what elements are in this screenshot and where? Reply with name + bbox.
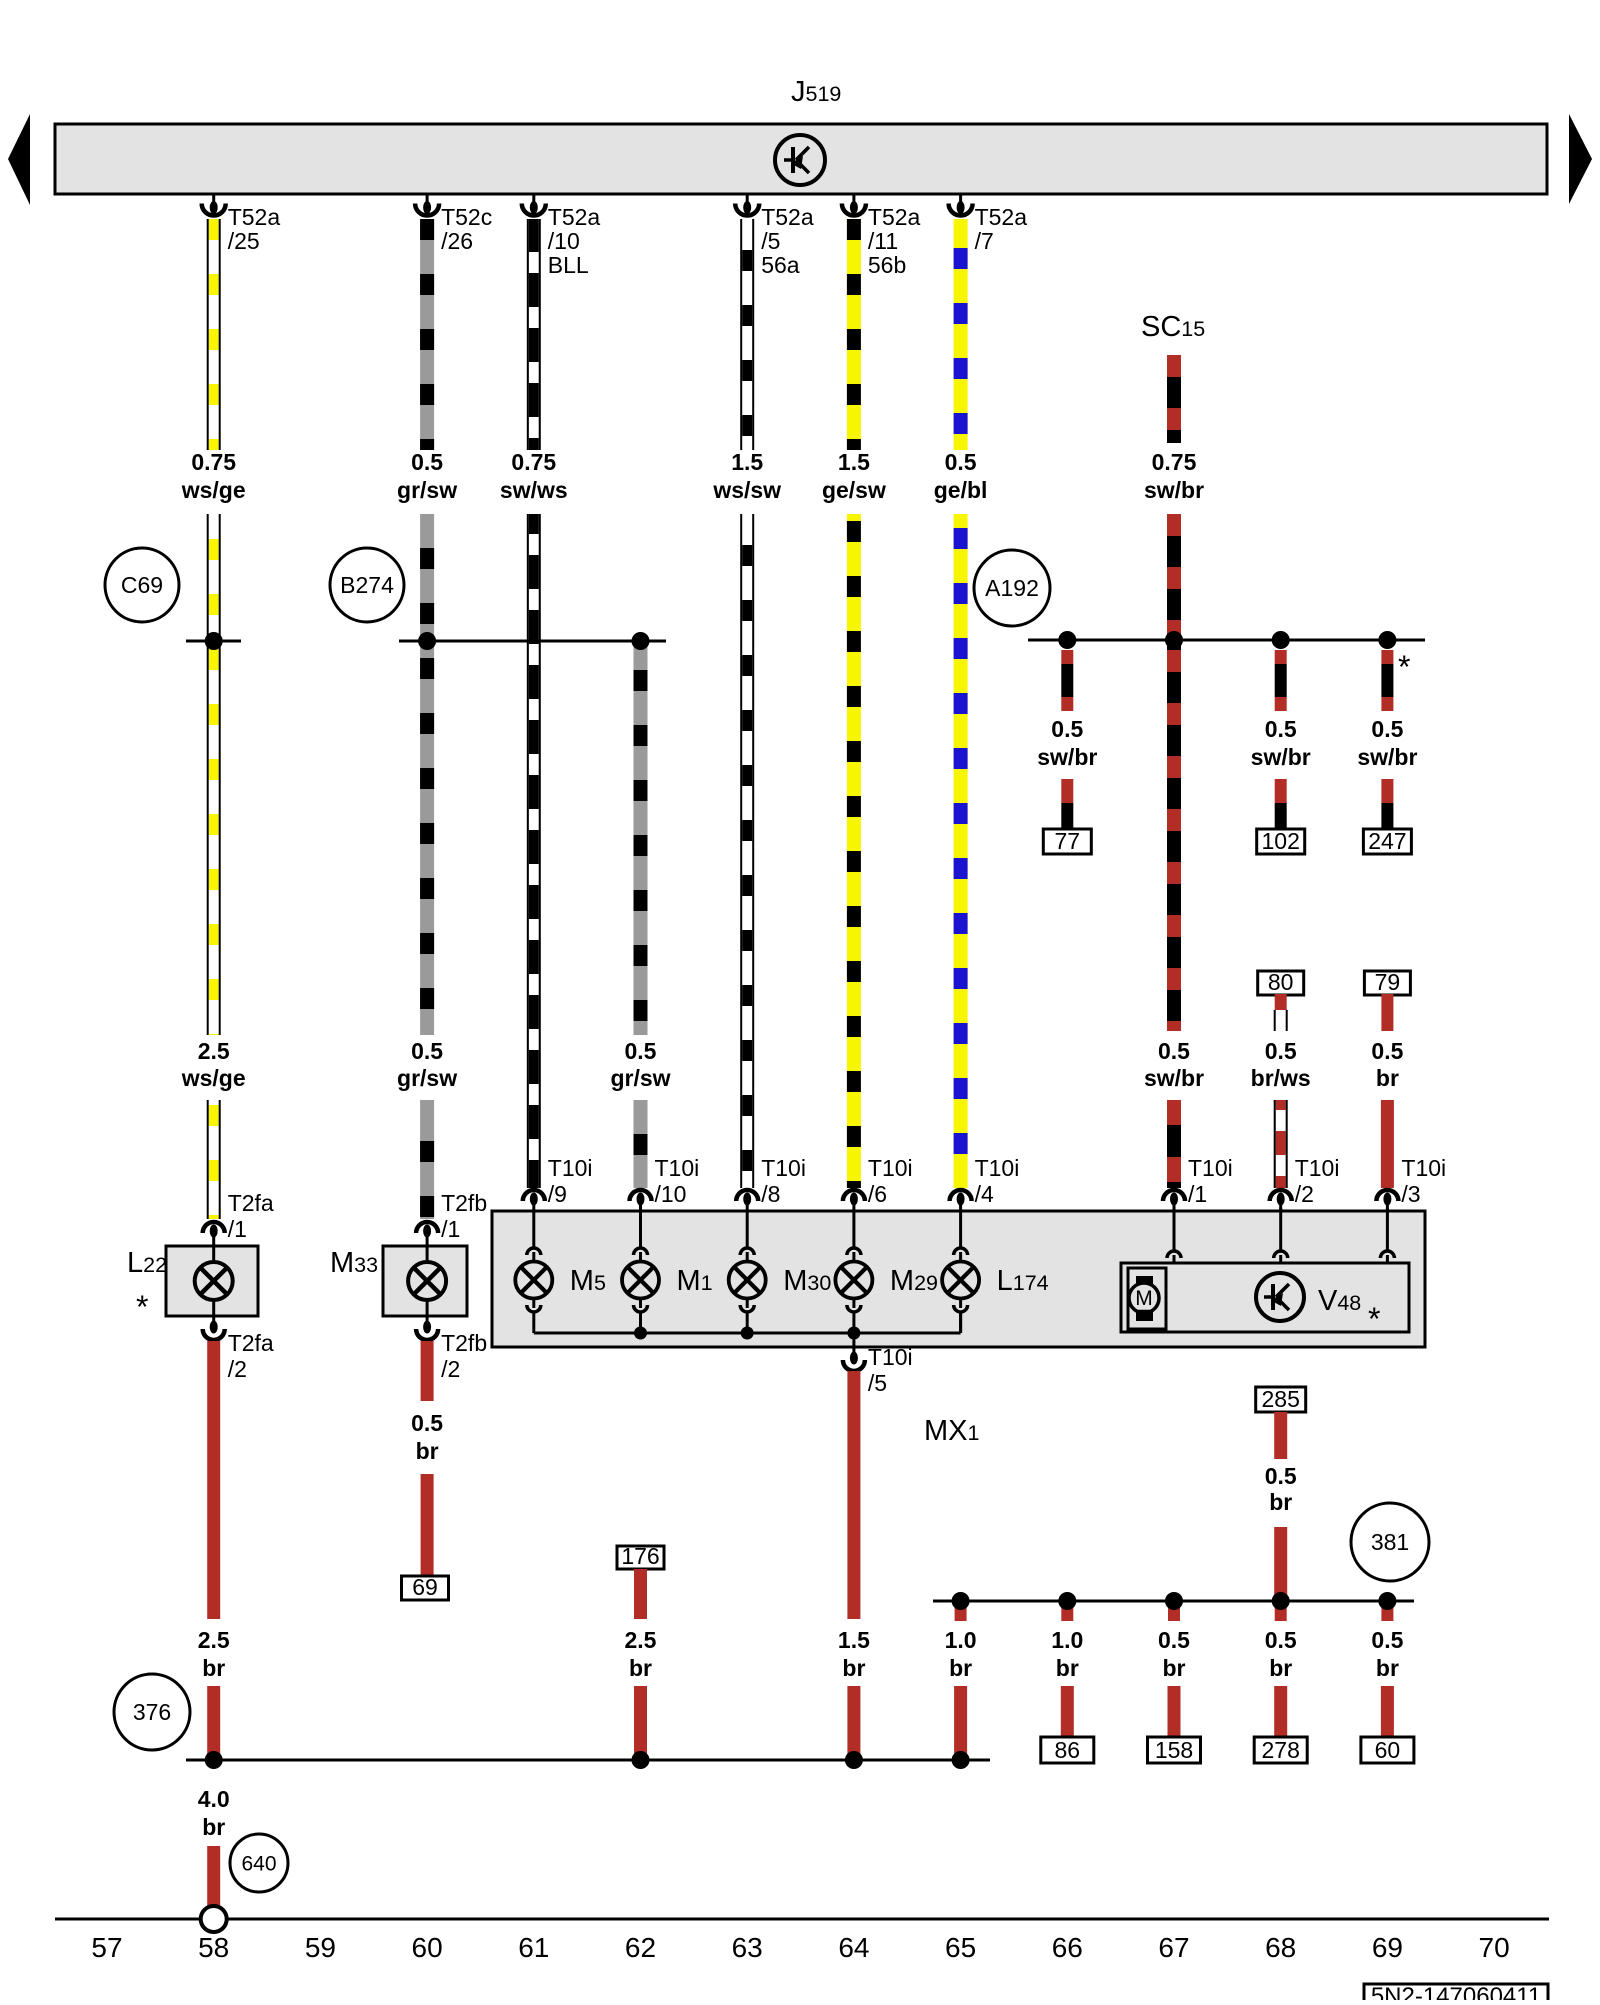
label L22 bbox=[127, 1247, 167, 1279]
svg-text:1.0: 1.0 bbox=[1051, 1627, 1083, 1653]
junction line A192 splice bbox=[1028, 639, 1425, 642]
svg-text:sw/br: sw/br bbox=[1144, 1065, 1204, 1091]
internal ground bus inside lamp unit bbox=[534, 1311, 961, 1333]
svg-text:69: 69 bbox=[412, 1574, 438, 1600]
wire br stub below MX1 splice bbox=[1061, 1601, 1073, 1621]
left continuation arrow bbox=[8, 114, 30, 205]
scale number 66 bbox=[1052, 1932, 1083, 1963]
label M5 bbox=[570, 1265, 606, 1297]
scale number 60 bbox=[412, 1932, 443, 1963]
label M29 bbox=[890, 1265, 938, 1297]
ground point 60 bbox=[1361, 1737, 1414, 1763]
connector T2fb/1 bbox=[416, 1190, 487, 1246]
node 640 bbox=[230, 1834, 288, 1892]
motor assembly box V48 bbox=[1121, 1263, 1409, 1332]
svg-text:B274: B274 bbox=[340, 572, 394, 598]
wire br 2.5 from T2fa/2 bbox=[207, 1341, 220, 1619]
svg-text:1.5: 1.5 bbox=[838, 449, 870, 475]
junction dot C69 splice bbox=[205, 632, 223, 650]
svg-text:4.0: 4.0 bbox=[198, 1786, 230, 1812]
svg-text:T10i: T10i bbox=[655, 1155, 700, 1181]
value label 0.5 br bbox=[1158, 1627, 1190, 1681]
wire ge/bl (segment B, continuous) bbox=[954, 514, 968, 1188]
asterisk note at A192 splice bbox=[1398, 649, 1410, 685]
svg-text:79: 79 bbox=[1375, 969, 1401, 995]
value label 0.75 sw/br bbox=[1144, 449, 1204, 503]
svg-text:sw/br: sw/br bbox=[1144, 477, 1204, 503]
label M1 bbox=[677, 1265, 713, 1297]
ground point 247 bbox=[1363, 828, 1411, 854]
wire br 2.5 to ground splice (col 58) bbox=[207, 1686, 220, 1760]
wire br (segment C to T10i/3) bbox=[1381, 1100, 1394, 1188]
svg-text:70: 70 bbox=[1479, 1932, 1510, 1963]
svg-text:*: * bbox=[1398, 649, 1410, 685]
wire br 0.5 to ground 158 bbox=[1168, 1686, 1181, 1737]
wire br 1.5 from T10i/5 bbox=[847, 1371, 860, 1619]
svg-text:ws/ge: ws/ge bbox=[181, 1065, 246, 1091]
svg-text:65: 65 bbox=[945, 1932, 976, 1963]
wire br stub below MX1 splice bbox=[1275, 1601, 1287, 1621]
junction dots ground splice 376 bbox=[205, 1751, 970, 1769]
svg-text:0.5: 0.5 bbox=[625, 1038, 657, 1064]
diagram part number 5N2-147060411 bbox=[1364, 1983, 1548, 2005]
svg-text:/10: /10 bbox=[655, 1181, 687, 1207]
lamp M30 bbox=[729, 1211, 766, 1333]
svg-text:/1: /1 bbox=[441, 1216, 460, 1242]
wire stub to ground 247 bbox=[1381, 779, 1393, 829]
connector T52a/5 on J519 bbox=[735, 194, 814, 278]
node B274 bbox=[330, 548, 404, 622]
node C69 bbox=[105, 548, 179, 622]
svg-text:0.75: 0.75 bbox=[191, 449, 236, 475]
scale number 62 bbox=[625, 1932, 656, 1963]
svg-text:T2fb: T2fb bbox=[441, 1330, 487, 1356]
wire br 1.0 to ground 86 bbox=[1061, 1686, 1074, 1737]
K symbol in J519 bbox=[775, 135, 825, 185]
svg-text:*: * bbox=[136, 1289, 148, 1325]
svg-text:T2fa: T2fa bbox=[228, 1190, 274, 1216]
splice line MX1 bbox=[933, 1600, 1414, 1603]
value label 0.5 br bbox=[1265, 1463, 1297, 1515]
svg-text:T52a: T52a bbox=[975, 204, 1028, 230]
connector T10i/9 bbox=[523, 1155, 593, 1211]
node 381 bbox=[1351, 1503, 1429, 1581]
wire ge/sw (segment B, continuous) bbox=[847, 514, 861, 1188]
node 376 bbox=[114, 1674, 190, 1750]
scale number 67 bbox=[1158, 1932, 1189, 1963]
svg-text:M: M bbox=[1135, 1287, 1153, 1310]
svg-text:sw/br: sw/br bbox=[1357, 744, 1417, 770]
svg-text:BLL: BLL bbox=[548, 252, 589, 278]
svg-text:T2fb: T2fb bbox=[441, 1190, 487, 1216]
svg-text:/9: /9 bbox=[548, 1181, 567, 1207]
value label 0.5 sw/br bbox=[1251, 716, 1311, 770]
value label 0.75 ws/ge bbox=[181, 449, 246, 503]
svg-text:gr/sw: gr/sw bbox=[397, 477, 457, 503]
lamp M29 bbox=[835, 1211, 872, 1333]
svg-text:58: 58 bbox=[198, 1932, 229, 1963]
label L174 bbox=[997, 1265, 1049, 1297]
wire br stub below 79 bbox=[1381, 994, 1393, 1031]
svg-text:sw/br: sw/br bbox=[1251, 744, 1311, 770]
scale number 65 bbox=[945, 1932, 976, 1963]
wire sw/br 0.5 stub below A192 splice (to 102) bbox=[1275, 650, 1287, 711]
wire sw/br 0.5 below A192 splice bbox=[1167, 640, 1181, 1031]
wire br stub below MX1 splice bbox=[1381, 1601, 1393, 1621]
wire br 285 to MX1 splice bbox=[1274, 1527, 1287, 1601]
junction line B274 splice bbox=[399, 640, 666, 643]
scale number 63 bbox=[732, 1932, 763, 1963]
wire ws/sw 1.5 from T52a/5 (segment A) bbox=[741, 219, 753, 450]
svg-text:60: 60 bbox=[412, 1932, 443, 1963]
value label 0.5 br bbox=[1371, 1627, 1403, 1681]
svg-text:/2: /2 bbox=[441, 1356, 460, 1382]
K symbol V48 bbox=[1256, 1273, 1304, 1321]
svg-text:T10i: T10i bbox=[868, 1155, 913, 1181]
svg-text:/26: /26 bbox=[441, 228, 473, 254]
svg-text:80: 80 bbox=[1268, 969, 1294, 995]
junction dots B274 splice bbox=[418, 632, 649, 650]
svg-text:0.5: 0.5 bbox=[411, 1410, 443, 1436]
ground point 77 bbox=[1043, 828, 1091, 854]
svg-text:640: 640 bbox=[241, 1852, 276, 1875]
scale number 70 bbox=[1479, 1932, 1510, 1963]
wire br 0.5 below 285 bbox=[1274, 1412, 1287, 1459]
scale number 59 bbox=[305, 1932, 336, 1963]
svg-text:br: br bbox=[1376, 1655, 1399, 1681]
connector T10i/3 bbox=[1376, 1155, 1446, 1211]
label V48 bbox=[1318, 1285, 1361, 1317]
value label 0.5 sw/br bbox=[1037, 716, 1097, 770]
wire br stub below MX1 splice bbox=[955, 1601, 967, 1621]
lamp box M33 bbox=[383, 1246, 467, 1316]
svg-text:/8: /8 bbox=[761, 1181, 780, 1207]
scale number 69 bbox=[1372, 1932, 1403, 1963]
svg-text:ws/sw: ws/sw bbox=[712, 477, 781, 503]
svg-text:60: 60 bbox=[1375, 1737, 1401, 1763]
value label 1.0 br bbox=[1051, 1627, 1083, 1681]
svg-text:67: 67 bbox=[1158, 1932, 1189, 1963]
svg-text:T10i: T10i bbox=[1401, 1155, 1446, 1181]
lamp symbol M33 bbox=[408, 1246, 446, 1316]
ground terminal symbol at track 58 bbox=[201, 1906, 227, 1932]
svg-text:br: br bbox=[1376, 1065, 1399, 1091]
wire br to ground 69 bbox=[421, 1474, 434, 1576]
value label 0.5 br/ws bbox=[1251, 1038, 1311, 1091]
svg-text:1.5: 1.5 bbox=[838, 1627, 870, 1653]
junction dots MX1 splice bbox=[952, 1592, 1397, 1610]
wire sw/ws (segment B, continuous) bbox=[528, 514, 540, 1188]
svg-text:0.5: 0.5 bbox=[945, 449, 977, 475]
svg-text:0.5: 0.5 bbox=[1051, 716, 1083, 742]
bottom frame line bbox=[55, 1918, 1549, 1921]
svg-text:/6: /6 bbox=[868, 1181, 887, 1207]
connector T10i/4 bbox=[950, 1155, 1020, 1211]
right continuation arrow bbox=[1569, 114, 1592, 204]
asterisk note V48 bbox=[1368, 1301, 1380, 1337]
svg-text:62: 62 bbox=[625, 1932, 656, 1963]
svg-text:ge/sw: ge/sw bbox=[822, 477, 886, 503]
label M30 bbox=[783, 1265, 831, 1297]
svg-text:0.5: 0.5 bbox=[1371, 716, 1403, 742]
svg-text:0.5: 0.5 bbox=[411, 1038, 443, 1064]
value label 1.0 br bbox=[945, 1627, 977, 1681]
value label 0.5 gr/sw bbox=[610, 1038, 670, 1091]
value label 0.5 br bbox=[1371, 1038, 1403, 1091]
svg-text:T10i: T10i bbox=[761, 1155, 806, 1181]
svg-text:/25: /25 bbox=[228, 228, 260, 254]
svg-text:ge/bl: ge/bl bbox=[934, 477, 988, 503]
value label 0.5 ge/bl bbox=[934, 449, 988, 503]
connector T52a/25 on J519 bbox=[202, 194, 281, 254]
ground point 69 bbox=[402, 1574, 449, 1600]
label SC15 bbox=[1141, 311, 1205, 343]
svg-text:br: br bbox=[202, 1814, 225, 1840]
wire br stub below MX1 splice bbox=[1168, 1601, 1180, 1621]
svg-text:T10i: T10i bbox=[548, 1155, 593, 1181]
wire br 1.5 to ground splice (col 64) bbox=[847, 1686, 860, 1761]
lamp L174 bbox=[942, 1211, 979, 1333]
svg-text:T52a: T52a bbox=[868, 204, 921, 230]
connector T10i/1 bbox=[1163, 1155, 1233, 1211]
wire gr/sw (segment B) bbox=[420, 514, 434, 1035]
svg-text:ws/ge: ws/ge bbox=[181, 477, 246, 503]
svg-text:64: 64 bbox=[838, 1932, 869, 1963]
junction on ws/ge wire (C69 splice) bbox=[186, 640, 241, 643]
svg-text:br: br bbox=[1269, 1489, 1292, 1515]
svg-text:br: br bbox=[1269, 1655, 1292, 1681]
svg-text:102: 102 bbox=[1262, 828, 1300, 854]
svg-text:br: br bbox=[629, 1655, 652, 1681]
svg-text:*: * bbox=[1368, 1301, 1380, 1337]
svg-text:5N2-147060411: 5N2-147060411 bbox=[1371, 1983, 1541, 2000]
svg-text:376: 376 bbox=[133, 1699, 171, 1725]
label M33 bbox=[330, 1247, 378, 1279]
wire sw/ws 0.75 from T52a/10 (segment A) bbox=[528, 219, 540, 450]
value label 1.5 ge/sw bbox=[822, 449, 886, 503]
value label 0.75 sw/ws bbox=[500, 449, 568, 503]
wire br/ws stub below 80 bbox=[1275, 994, 1287, 1031]
svg-text:0.75: 0.75 bbox=[511, 449, 556, 475]
svg-text:247: 247 bbox=[1368, 828, 1406, 854]
svg-text:br: br bbox=[416, 1438, 439, 1464]
svg-text:A192: A192 bbox=[985, 575, 1039, 601]
svg-text:/4: /4 bbox=[975, 1181, 994, 1207]
svg-text:285: 285 bbox=[1262, 1386, 1300, 1412]
wire stub to ground 102 bbox=[1275, 779, 1287, 829]
wire br 0.5 to ground 60 bbox=[1381, 1686, 1394, 1737]
value label 0.5 br bbox=[411, 1410, 443, 1464]
wire gr/sw (segment C to T10i/10) bbox=[634, 1100, 648, 1188]
svg-text:56a: 56a bbox=[761, 252, 800, 278]
svg-text:63: 63 bbox=[732, 1932, 763, 1963]
connector T10i/10 bbox=[630, 1155, 700, 1211]
svg-text:0.5: 0.5 bbox=[1371, 1038, 1403, 1064]
svg-text:/5: /5 bbox=[868, 1370, 887, 1396]
svg-text:sw/br: sw/br bbox=[1037, 744, 1097, 770]
lamp box L22 bbox=[166, 1246, 258, 1316]
wire gr/sw (segment C to T2fb/1) bbox=[420, 1100, 434, 1219]
wire gr/sw 0.5 from T52c/26 (segment A) bbox=[420, 219, 434, 450]
wire br 4.0 to main ground bbox=[207, 1846, 220, 1917]
value label 1.5 br bbox=[838, 1627, 870, 1681]
node A192 bbox=[974, 550, 1050, 626]
svg-text:T52a: T52a bbox=[548, 204, 601, 230]
wire ge/bl 0.5 from T52a/7 (segment A) bbox=[954, 219, 968, 450]
svg-text:/3: /3 bbox=[1401, 1181, 1420, 1207]
value label 2.5 br bbox=[625, 1627, 657, 1681]
motor symbol M bbox=[1128, 1268, 1166, 1329]
svg-text:0.5: 0.5 bbox=[1158, 1038, 1190, 1064]
svg-text:/2: /2 bbox=[228, 1356, 247, 1382]
connector T2fb/2 bbox=[416, 1316, 487, 1382]
socket on V48 box bbox=[1274, 1208, 1288, 1263]
svg-text:381: 381 bbox=[1371, 1529, 1409, 1555]
svg-text:br: br bbox=[842, 1655, 865, 1681]
svg-text:T52a: T52a bbox=[228, 204, 281, 230]
lamp M1 bbox=[622, 1211, 659, 1333]
value label 0.5 br bbox=[1265, 1627, 1297, 1681]
wire ws/ge 2.5 (segment B) bbox=[208, 514, 220, 1035]
ground point 176 bbox=[617, 1543, 664, 1569]
wire sw/br 0.75 from SC15 (top segment) bbox=[1167, 355, 1181, 443]
wire sw/br (segment C to T10i/1) bbox=[1167, 1100, 1181, 1188]
svg-text:/10: /10 bbox=[548, 228, 580, 254]
svg-text:br: br bbox=[202, 1655, 225, 1681]
wire br 0.5 to ground 278 bbox=[1274, 1686, 1287, 1737]
ground point 158 bbox=[1148, 1737, 1201, 1763]
ground point 278 bbox=[1254, 1737, 1307, 1763]
svg-text:2.5: 2.5 bbox=[198, 1627, 230, 1653]
connector T52c/26 on J519 bbox=[415, 194, 492, 254]
label MX1 bbox=[924, 1415, 979, 1447]
connector T52a/10 on J519 bbox=[522, 194, 601, 278]
svg-text:77: 77 bbox=[1055, 828, 1081, 854]
svg-text:57: 57 bbox=[91, 1932, 122, 1963]
svg-text:176: 176 bbox=[621, 1543, 659, 1569]
svg-text:68: 68 bbox=[1265, 1932, 1296, 1963]
socket on V48 box bbox=[1167, 1208, 1181, 1263]
value label 4.0 br bbox=[198, 1786, 230, 1840]
svg-text:br: br bbox=[1056, 1655, 1079, 1681]
svg-text:C69: C69 bbox=[121, 572, 163, 598]
asterisk note L22 bbox=[136, 1289, 148, 1325]
svg-text:59: 59 bbox=[305, 1932, 336, 1963]
value label 1.5 ws/sw bbox=[712, 449, 781, 503]
scale number 58 bbox=[198, 1932, 229, 1963]
ground splice line 376 bbox=[186, 1759, 990, 1762]
svg-text:69: 69 bbox=[1372, 1932, 1403, 1963]
wire sw/br 0.5 stub below A192 splice (to 247) bbox=[1381, 650, 1393, 711]
connector T10i/2 bbox=[1270, 1155, 1340, 1211]
connector T2fa/1 bbox=[203, 1190, 274, 1246]
wire br 0.5 from T2fb/2 bbox=[421, 1341, 434, 1401]
svg-text:/7: /7 bbox=[975, 228, 994, 254]
connector T10i/8 bbox=[736, 1155, 806, 1211]
connector T2fa/2 bbox=[203, 1316, 274, 1382]
ground point 86 bbox=[1041, 1737, 1094, 1763]
socket on V48 box bbox=[1380, 1208, 1394, 1263]
wire ws/ge 0.75 from T52a/25 (segment A) bbox=[208, 219, 220, 450]
svg-text:T10i: T10i bbox=[868, 1344, 913, 1370]
terminal 80 feed bbox=[1258, 969, 1304, 995]
wire gr/sw 0.5 branch from B274 splice bbox=[634, 641, 648, 1035]
svg-text:158: 158 bbox=[1155, 1737, 1193, 1763]
svg-text:T10i: T10i bbox=[1188, 1155, 1233, 1181]
scale number 61 bbox=[518, 1932, 549, 1963]
svg-text:/5: /5 bbox=[761, 228, 780, 254]
svg-text:T10i: T10i bbox=[1295, 1155, 1340, 1181]
value label 0.5 gr/sw bbox=[397, 449, 457, 503]
connector T10i/6 bbox=[843, 1155, 913, 1211]
svg-text:0.5: 0.5 bbox=[1371, 1627, 1403, 1653]
svg-text:61: 61 bbox=[518, 1932, 549, 1963]
value label 0.5 gr/sw bbox=[397, 1038, 457, 1091]
svg-text:56b: 56b bbox=[868, 252, 906, 278]
connector T10i/5 bbox=[843, 1344, 913, 1396]
svg-text:0.5: 0.5 bbox=[1265, 716, 1297, 742]
scale number 68 bbox=[1265, 1932, 1296, 1963]
value label 2.5 br bbox=[198, 1627, 230, 1681]
wire br 2.5 below 176 bbox=[634, 1569, 647, 1619]
svg-text:/1: /1 bbox=[1188, 1181, 1207, 1207]
svg-text:86: 86 bbox=[1055, 1737, 1081, 1763]
wire br 1.0 to ground splice (col 65) bbox=[954, 1686, 967, 1761]
scale number 57 bbox=[91, 1932, 122, 1963]
svg-text:0.5: 0.5 bbox=[1265, 1627, 1297, 1653]
svg-text:2.5: 2.5 bbox=[198, 1038, 230, 1064]
svg-text:0.75: 0.75 bbox=[1152, 449, 1197, 475]
wire sw/br 0.5 stub below A192 splice (to 77) bbox=[1061, 650, 1073, 711]
value label 0.5 sw/br bbox=[1144, 1038, 1204, 1091]
svg-text:0.5: 0.5 bbox=[1265, 1038, 1297, 1064]
svg-text:br: br bbox=[1163, 1655, 1186, 1681]
svg-text:/11: /11 bbox=[868, 228, 898, 254]
label J519 bbox=[791, 76, 841, 108]
svg-text:T52c: T52c bbox=[441, 204, 492, 230]
svg-text:/2: /2 bbox=[1295, 1181, 1314, 1207]
terminal 79 feed bbox=[1364, 969, 1410, 995]
junction dots inside lamp unit bbox=[634, 1327, 860, 1340]
svg-text:0.5: 0.5 bbox=[411, 449, 443, 475]
scale number 64 bbox=[838, 1932, 869, 1963]
svg-text:br/ws: br/ws bbox=[1251, 1065, 1311, 1091]
wire br 2.5 to ground splice (col 62) bbox=[634, 1686, 647, 1760]
junction dots A192 splice bbox=[1058, 631, 1396, 649]
wire ws/sw (segment B, continuous) bbox=[741, 514, 753, 1188]
svg-text:/1: /1 bbox=[228, 1216, 247, 1242]
lamp M5 bbox=[515, 1211, 552, 1333]
wire from M29 through box bottom bbox=[852, 1333, 855, 1347]
svg-text:2.5: 2.5 bbox=[625, 1627, 657, 1653]
connector T52a/7 on J519 bbox=[949, 194, 1028, 254]
svg-text:278: 278 bbox=[1262, 1737, 1300, 1763]
value label 0.5 sw/br bbox=[1357, 716, 1417, 770]
svg-text:1.5: 1.5 bbox=[731, 449, 763, 475]
svg-text:gr/sw: gr/sw bbox=[397, 1065, 457, 1091]
svg-text:66: 66 bbox=[1052, 1932, 1083, 1963]
bus bar J519 (onboard supply control unit) bbox=[55, 124, 1547, 194]
lamp symbol L22 bbox=[195, 1246, 233, 1316]
wire br/ws (segment C to T10i/2) bbox=[1275, 1100, 1287, 1188]
svg-text:T52a: T52a bbox=[761, 204, 814, 230]
svg-text:0.5: 0.5 bbox=[1158, 1627, 1190, 1653]
svg-text:br: br bbox=[949, 1655, 972, 1681]
wire sw/br 0.75 SC15 (segment B) bbox=[1167, 514, 1181, 640]
svg-text:T10i: T10i bbox=[975, 1155, 1020, 1181]
ground point 102 bbox=[1257, 828, 1305, 854]
svg-text:gr/sw: gr/sw bbox=[610, 1065, 670, 1091]
